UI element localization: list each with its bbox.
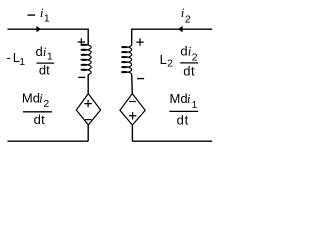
- svg-text:Md: Md: [22, 91, 40, 106]
- label L2: [160, 52, 174, 70]
- svg-text:2: 2: [167, 58, 173, 70]
- stem from coil to dependent source (right): [131, 75, 134, 94]
- left circuit bottom wire: [8, 140, 89, 142]
- minus sign at bottom of L1: [78, 76, 85, 78]
- label Mdi1/dt: [169, 91, 198, 128]
- svg-text:1: 1: [192, 99, 198, 111]
- svg-text:d: d: [180, 44, 187, 59]
- svg-text:1: 1: [44, 12, 50, 24]
- svg-text:Md: Md: [170, 91, 188, 106]
- stem from diamond to bottom wire: [87, 125, 89, 141]
- svg-text:-: -: [7, 50, 11, 65]
- plus sign at top of L2: [136, 38, 143, 45]
- dependent source diamond (left): [76, 94, 100, 125]
- svg-text:i: i: [187, 91, 191, 106]
- left branch vertical from top wire to coil: [87, 29, 89, 45]
- svg-text:dt: dt: [177, 112, 189, 127]
- stem from right diamond to bottom wire: [131, 125, 133, 141]
- label - i1: [28, 5, 50, 24]
- svg-text:d: d: [36, 44, 43, 59]
- svg-text:2: 2: [43, 98, 49, 110]
- svg-text:L: L: [160, 52, 167, 67]
- svg-text:2: 2: [185, 14, 191, 26]
- svg-text:dt: dt: [34, 112, 46, 127]
- svg-text:1: 1: [47, 50, 53, 62]
- label i2: [181, 5, 191, 26]
- right circuit top wire: [132, 28, 212, 30]
- stem from coil to dependent source: [87, 75, 89, 94]
- dependent source diamond (right): [120, 94, 145, 125]
- minus sign at bottom of L2: [137, 78, 144, 80]
- current arrow i1 (pointing right): [36, 26, 41, 33]
- label Mdi2/dt: [22, 91, 52, 128]
- svg-text:dt: dt: [39, 62, 50, 77]
- left circuit top wire: [8, 28, 89, 30]
- svg-text:2: 2: [192, 51, 198, 63]
- plus inside right diamond: [129, 112, 136, 119]
- fraction di1/dt: [36, 44, 55, 78]
- inductor L1 coil: [81, 44, 91, 74]
- svg-text:1: 1: [19, 56, 25, 68]
- inductor L2 coil: [122, 45, 132, 75]
- svg-text:dt: dt: [183, 63, 195, 78]
- plus inside left diamond: [84, 100, 91, 107]
- minus inside left diamond: [85, 119, 91, 121]
- plus sign at top of L1: [78, 38, 85, 45]
- fraction di2/dt: [180, 44, 198, 79]
- minus inside right diamond: [129, 101, 136, 103]
- right branch vertical from top wire to coil: [131, 29, 133, 45]
- right circuit bottom wire: [132, 140, 212, 142]
- current arrow i2 (pointing left): [178, 26, 183, 33]
- label - L1: [7, 50, 26, 68]
